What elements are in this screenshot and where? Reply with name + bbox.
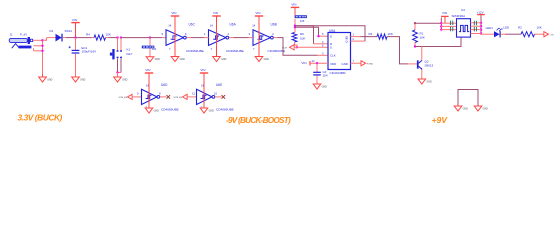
svg-text:5: 5: [162, 32, 164, 36]
svg-text:GND: GND: [483, 107, 489, 110]
svg-text:U6C: U6C: [189, 23, 196, 27]
svg-text:VIN: VIN: [200, 68, 205, 72]
wire port to pin6 S: [294, 46, 328, 48]
svg-text:LED1: LED1: [486, 26, 494, 30]
svg-text:10K: 10K: [388, 32, 393, 36]
svg-text:GND: GND: [155, 58, 161, 61]
wire loop R-net to pin4: [295, 26, 314, 44]
svg-text:4: 4: [272, 32, 274, 36]
svg-text:GND: GND: [322, 85, 328, 88]
svg-text:GND: GND: [80, 78, 86, 81]
wire Q2 collector: [421, 47, 423, 61]
svg-text:VIN: VIN: [255, 11, 260, 15]
svg-text:2: 2: [228, 32, 230, 36]
node VIN junction: [74, 36, 76, 38]
wire R3 to Q2 base: [387, 37, 408, 64]
svg-text:GND: GND: [264, 58, 270, 61]
svg-text:3: 3: [249, 32, 251, 36]
ground U6C: [171, 57, 179, 62]
inverter U6B CD4069UBE: [253, 30, 271, 46]
svg-text:VDD: VDD: [330, 62, 336, 66]
inverter U6A CD4069UBE: [209, 30, 227, 46]
wire ground tie staple: [458, 90, 478, 107]
no-connect X at U6E output: [222, 95, 226, 99]
wire U4 right pin stubs: [471, 22, 482, 24]
ground J1: [42, 74, 44, 77]
transistor Q2 S9013 NPN: [417, 60, 419, 68]
wire R1 top feed: [415, 22, 441, 24]
svg-text:LED: LED: [504, 26, 510, 30]
ground tie right: [474, 106, 482, 111]
wire Qbar stub: [351, 40, 366, 42]
svg-text:J1: J1: [10, 33, 14, 37]
wire LED1 to R2: [501, 33, 505, 35]
wire left supply rail of U4: [440, 18, 442, 30]
wire rail K1 to C2: [121, 37, 150, 39]
svg-text:GND: GND: [342, 62, 348, 66]
wire VDD pin: [309, 61, 311, 65]
svg-text:GND: GND: [209, 109, 215, 112]
svg-text:10K: 10K: [420, 36, 425, 40]
svg-text:1: 1: [204, 32, 206, 36]
port GND output: [361, 61, 366, 66]
svg-text:K1: K1: [127, 48, 131, 52]
wire J1 ground drop: [42, 40, 44, 74]
svg-text:GND: GND: [180, 58, 186, 61]
svg-text:U6E: U6E: [216, 83, 222, 87]
svg-text:R3: R3: [369, 32, 373, 36]
svg-text:GND: GND: [463, 107, 469, 110]
svg-text:U6D: U6D: [161, 83, 168, 87]
wire right supply rail of U4: [480, 15, 482, 34]
svg-text:7: 7: [211, 47, 213, 51]
wire U4 left pin stubs: [441, 22, 456, 24]
svg-text:VIN: VIN: [171, 11, 176, 15]
svg-text:104: 104: [323, 74, 328, 78]
svg-text:R4: R4: [86, 32, 90, 36]
wire U6A out to U6B in: [229, 37, 233, 39]
svg-text:CLK: CLK: [330, 54, 336, 58]
wire rail C2 to U6C input: [150, 37, 162, 39]
wire rail VIN to R4: [76, 37, 92, 39]
svg-text:10K: 10K: [300, 36, 305, 40]
svg-text:GND: GND: [122, 78, 128, 81]
wire main rail to diode: [47, 37, 56, 39]
push button K1 KEY: [117, 38, 119, 51]
svg-text:11: 11: [192, 91, 195, 95]
svg-text:U4: U4: [461, 8, 465, 12]
svg-text:SCM_EN: SCM_EN: [174, 97, 183, 99]
net label SCM_EN: [295, 15, 307, 18]
wire U6E output to no-connect: [215, 96, 222, 98]
wire Q output to R3: [351, 36, 361, 38]
inverter U6C CD4069UBE: [166, 30, 184, 46]
ground U6E: [200, 108, 208, 113]
svg-text:+9V: +9V: [432, 115, 449, 125]
svg-text:6: 6: [185, 32, 187, 36]
svg-text:105: 105: [300, 19, 305, 23]
wire R2 to +9V port: [535, 33, 544, 35]
D flip-flop U5A CD4013BM: [328, 33, 351, 70]
svg-text:R2: R2: [518, 26, 522, 30]
svg-text:SCM_EN: SCM_EN: [119, 97, 128, 99]
svg-text:KEY: KEY: [127, 52, 133, 56]
svg-text:7: 7: [353, 59, 355, 63]
inverter U6E CD4069UBE: [197, 89, 213, 104]
svg-text:S: S: [330, 46, 332, 50]
svg-text:104: 104: [152, 47, 157, 51]
svg-text:+12V: +12V: [477, 11, 484, 15]
ground Q2: [418, 79, 426, 84]
wire U6B out to U5A CLK: [274, 37, 278, 39]
capacitor marks left of U4: [451, 21, 453, 32]
svg-text:CD4069UBE: CD4069UBE: [226, 49, 244, 53]
svg-text:GND: GND: [426, 80, 432, 83]
capacitor marks right of U4: [474, 21, 476, 32]
svg-text:U6A: U6A: [230, 23, 237, 27]
capacitor C4 104 decoupling: [316, 63, 318, 72]
svg-text:4: 4: [322, 40, 324, 44]
ground tie left: [454, 106, 462, 111]
wire K1 to ground: [117, 58, 119, 72]
svg-text:SCM: SCM: [282, 48, 287, 50]
wire C4 to ground: [316, 76, 318, 85]
wire EC1 to ground: [75, 54, 77, 77]
wire J1 pin stubs: [33, 39, 43, 41]
wire Q2 emitter to ground: [421, 69, 423, 79]
svg-text:100uF/16V: 100uF/16V: [82, 50, 97, 54]
svg-text:CD4069UBE: CD4069UBE: [161, 107, 179, 111]
svg-text:SM4030H: SM4030H: [452, 14, 465, 18]
inverter U6D CD4069UBE: [142, 89, 158, 104]
wire R1 bottom to IC enable pin: [415, 37, 461, 46]
ground of key sense label column: [146, 57, 154, 62]
svg-text:CD4069UBE: CD4069UBE: [186, 49, 204, 53]
svg-text:3.3V (BUCK): 3.3V (BUCK): [18, 112, 63, 122]
wire U6E supply through gate: [203, 89, 205, 104]
ground U6A: [213, 57, 221, 62]
svg-text:D: D: [330, 34, 332, 38]
no-connect X at U6D output: [167, 95, 171, 99]
svg-text:7: 7: [169, 47, 171, 51]
ground U6B: [255, 57, 263, 62]
ground C4: [313, 84, 321, 89]
ground U6D: [145, 108, 153, 113]
svg-text:GND: GND: [221, 58, 227, 61]
net label on key sense wire: [149, 38, 151, 57]
ground K1: [114, 77, 122, 82]
svg-text:VIN: VIN: [145, 68, 150, 72]
svg-text:+9V: +9V: [550, 35, 554, 37]
svg-text:14: 14: [210, 23, 214, 27]
ground EC1: [72, 77, 80, 82]
wire loop D-net to pin5: [295, 27, 319, 36]
svg-text:P_IN: P_IN: [20, 33, 27, 37]
svg-text:GND: GND: [47, 78, 53, 81]
wire SCM_EN column: [294, 19, 296, 33]
port +9V output: [544, 32, 549, 37]
svg-text:CD4013BM: CD4013BM: [330, 71, 346, 75]
svg-text:14: 14: [252, 23, 256, 27]
svg-text:9: 9: [137, 91, 139, 95]
resistor R1 10K: [414, 23, 416, 30]
svg-text:7: 7: [253, 47, 255, 51]
wire feedback Qbar to D: [295, 26, 365, 41]
svg-text:8: 8: [159, 91, 161, 95]
svg-text:14: 14: [312, 59, 315, 63]
wire jog to main rail: [43, 38, 47, 41]
svg-text:U6B: U6B: [271, 23, 277, 27]
svg-text:2: 2: [353, 37, 355, 41]
svg-text:1: 1: [353, 32, 355, 36]
svg-text:S9013: S9013: [425, 64, 434, 68]
wire +12V rail to LED1: [481, 33, 494, 35]
wire U6C out to U6A in: [187, 37, 191, 39]
wire U6A supply through gate: [216, 30, 218, 46]
wire R4 to K1 taps: [109, 37, 118, 39]
svg-text:VIN: VIN: [291, 3, 296, 7]
capacitor EC1 100uF/16V electrolytic: [75, 38, 77, 50]
wire U6B supply through gate: [258, 30, 260, 46]
svg-text:VIN: VIN: [442, 11, 447, 15]
svg-text:10K: 10K: [537, 26, 542, 30]
wire GND pin to port: [351, 62, 362, 64]
svg-text:3: 3: [322, 51, 324, 55]
svg-text:10: 10: [214, 91, 218, 95]
svg-text:GND: GND: [154, 109, 160, 112]
wire U6D supply through gate: [148, 89, 150, 104]
svg-text:5: 5: [322, 32, 324, 36]
svg-text:PGND: PGND: [367, 64, 374, 66]
wire U6C supply through gate: [174, 30, 176, 46]
svg-text:U5A: U5A: [329, 29, 336, 33]
svg-text:D1: D1: [50, 29, 54, 33]
svg-text:14: 14: [168, 23, 172, 27]
svg-text:VIN: VIN: [72, 18, 77, 22]
svg-text:CD4069UBE: CD4069UBE: [216, 107, 234, 111]
node D junction: [317, 35, 319, 37]
svg-text:SS14: SS14: [65, 29, 73, 33]
svg-text:10K: 10K: [106, 32, 111, 36]
svg-text:-9V (BUCK-BOOST): -9V (BUCK-BOOST): [226, 116, 291, 125]
wire diode to VIN junction: [63, 37, 66, 39]
svg-text:VIN: VIN: [302, 61, 307, 65]
svg-text:VIN: VIN: [213, 11, 218, 15]
wire U6D output to no-connect: [160, 96, 167, 98]
